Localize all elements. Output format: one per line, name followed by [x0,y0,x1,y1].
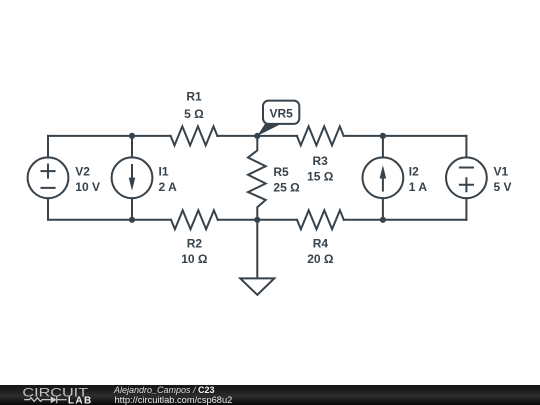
current source I2 [363,157,404,198]
wire top rail right: R3 to V1 top [344,135,467,137]
resistor R1 [171,126,218,145]
wire top rail mid: R1 to R3 [217,135,297,137]
svg-text:I1: I1 [159,164,169,178]
ground [240,220,274,295]
footer bar [0,385,540,405]
svg-text:25 Ω: 25 Ω [273,180,300,194]
node A: top of I1 [129,133,135,139]
node F: bottom of I2 [380,217,386,223]
svg-text:10 Ω: 10 Ω [181,252,208,266]
wire top rail left: V2 top to R1 [48,135,171,137]
svg-text:R1: R1 [186,90,202,104]
svg-text:R3: R3 [313,154,329,168]
svg-text:I2: I2 [409,164,419,178]
resistor R4 [297,210,344,229]
svg-text:5 V: 5 V [494,180,512,194]
svg-text:VR5: VR5 [270,106,294,120]
wire bottom rail right: R4 to V1 bottom [344,219,467,221]
CircuitLab logo [0,385,100,405]
svg-text:15 Ω: 15 Ω [307,170,334,184]
svg-text:V1: V1 [494,164,509,178]
wire I1 branch verticals [131,136,133,220]
wire V2 left branch verticals [47,136,49,220]
wire bottom rail left: V2 bottom to R2 [48,219,171,221]
resistor R3 [297,126,344,145]
svg-text:R2: R2 [187,237,203,251]
svg-text:R4: R4 [313,236,329,250]
svg-text:LAB: LAB [68,396,93,405]
node C: top of I2 [380,133,386,139]
node E: bottom of R5 (ground node) [254,217,260,223]
wire bottom rail mid: R2 to R4 [218,219,297,221]
resistor R2 [171,210,218,229]
voltage source V1 [446,157,487,198]
svg-text:1 A: 1 A [409,180,428,194]
voltage source V2 [28,157,69,198]
svg-text:V2: V2 [75,164,90,178]
wire V1 right branch verticals [465,136,467,220]
svg-text:10 V: 10 V [75,180,100,194]
current source I1 [112,157,153,198]
footer url line [115,395,233,405]
footer credit line [114,385,215,395]
svg-text:R5: R5 [273,165,289,179]
svg-text:5 Ω: 5 Ω [184,107,204,121]
svg-text:2 A: 2 A [159,180,178,194]
wire I2 branch verticals [382,136,384,220]
svg-text:20 Ω: 20 Ω [307,252,334,266]
VR5 probe box [263,101,299,124]
resistor R5 (vertical) with leads [248,136,266,220]
node D: bottom of I1 [129,217,135,223]
node B: top of R5 [254,133,260,139]
